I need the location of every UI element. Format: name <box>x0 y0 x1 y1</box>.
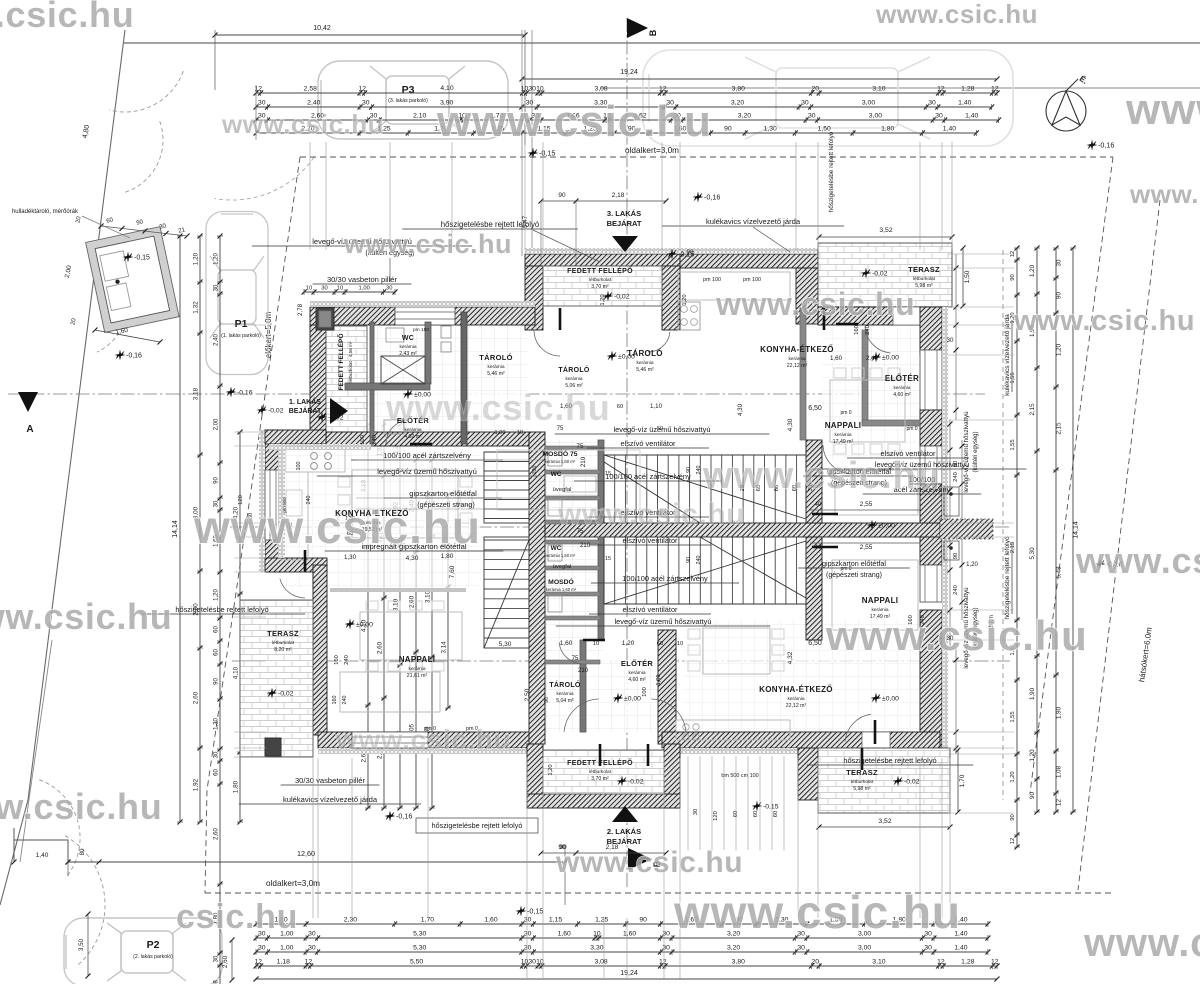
svg-text:levegő-víz üzemű hőszivattyú: levegő-víz üzemű hőszivattyú <box>377 467 477 476</box>
svg-text:12: 12 <box>659 959 667 966</box>
svg-text:30: 30 <box>258 100 266 107</box>
nappali3 sofa right <box>835 470 918 515</box>
svg-text:üvegfal: üvegfal <box>553 487 572 493</box>
kitchen1 upper table <box>352 470 458 538</box>
svg-text:kerámia: kerámia <box>787 696 804 702</box>
svg-text:30: 30 <box>214 955 220 962</box>
svg-text:90: 90 <box>1010 274 1016 280</box>
svg-text:30: 30 <box>524 945 532 952</box>
svg-text:(2. lakás parkoló): (2. lakás parkoló) <box>133 954 173 960</box>
svg-text:30: 30 <box>928 100 936 107</box>
svg-text:240: 240 <box>953 585 959 595</box>
covered entry FEDETT FELLEPO bottom brick <box>543 750 664 794</box>
pillar box bottom <box>265 738 281 756</box>
svg-text:levegő-víz üzemű hőszivattyú: levegő-víz üzemű hőszivattyú <box>963 411 970 493</box>
svg-text:FEDETT FELLÉPŐ: FEDETT FELLÉPŐ <box>567 758 633 767</box>
car P2 parking bottom <box>64 918 222 984</box>
kitchen1 stove <box>311 453 318 460</box>
svg-text:kerámia 1,60 m²: kerámia 1,60 m² <box>546 587 577 592</box>
svg-text:30: 30 <box>935 113 943 120</box>
wall central W spine <box>529 432 545 744</box>
svg-text:www.csic.hu: www.csic.hu <box>0 596 172 637</box>
svg-text:10: 10 <box>306 286 312 292</box>
svg-text:1,30: 1,30 <box>214 718 220 730</box>
wall top porch N <box>525 254 680 266</box>
svg-text:1,40: 1,40 <box>958 100 971 107</box>
svg-text:30: 30 <box>321 286 327 292</box>
svg-text:30: 30 <box>308 931 316 938</box>
dimension 10,42 top <box>215 34 525 36</box>
svg-text:3,00: 3,00 <box>869 113 882 120</box>
tile floor tarolo2 eloter2 <box>545 660 676 732</box>
svg-text:210: 210 <box>580 542 591 549</box>
site boundary bottom-left street line <box>20 640 52 862</box>
svg-text:3,10: 3,10 <box>393 598 400 611</box>
interior wall kitchen1 divider <box>330 588 466 592</box>
svg-text:12: 12 <box>1010 838 1016 844</box>
svg-text:P2: P2 <box>147 939 160 951</box>
svg-text:1,00: 1,00 <box>280 945 293 952</box>
svg-text:4,10: 4,10 <box>440 85 453 92</box>
svg-text:1,00: 1,00 <box>495 430 506 436</box>
svg-text:90: 90 <box>214 678 220 685</box>
svg-text:22,12 m²: 22,12 m² <box>787 363 808 369</box>
car P2 side dims <box>87 914 89 976</box>
svg-text:www.csic.hu: www.csic.hu <box>343 229 512 259</box>
svg-text:kerámia: kerámia <box>788 356 805 362</box>
svg-text:www.csic.hu: www.csic.hu <box>0 786 162 827</box>
svg-text:12: 12 <box>1056 799 1063 806</box>
interior thin wall eloter3 <box>862 330 868 424</box>
svg-text:hőszigetelésbe rejtett lefolyó: hőszigetelésbe rejtett lefolyó <box>843 756 936 765</box>
wall W of left block <box>310 325 326 444</box>
kitchen3 stove <box>678 302 700 330</box>
svg-text:1,20: 1,20 <box>1029 264 1036 277</box>
dimension chain bottom total 19,24 <box>256 978 997 980</box>
section marker A triangle <box>18 392 38 412</box>
wall N kitchen1 connect <box>265 430 326 444</box>
kitchen2 stove <box>683 724 689 730</box>
svg-text:90: 90 <box>214 477 220 484</box>
svg-text:5,30: 5,30 <box>413 931 426 938</box>
dimension chain bottom row1 <box>256 923 988 925</box>
svg-text:www.csic.hu: www.csic.hu <box>385 387 610 428</box>
covered entry FEDETT FELLEPO top brick <box>543 266 662 306</box>
svg-text:3,50: 3,50 <box>78 938 85 951</box>
svg-text:10: 10 <box>337 286 343 292</box>
level -0,16 right top <box>1087 140 1098 151</box>
svg-text:±0,00: ±0,00 <box>624 696 641 703</box>
svg-text:1,80: 1,80 <box>881 126 894 133</box>
setback dashed envelope outer right hatsokert <box>1078 200 1160 890</box>
dimension chain right total 14,14 <box>1072 248 1074 812</box>
svg-text:ELŐTÉR: ELŐTÉR <box>885 374 919 383</box>
svg-text:2,30: 2,30 <box>344 917 357 924</box>
svg-text:www.csic.hu: www.csic.hu <box>825 612 1088 659</box>
svg-text:240: 240 <box>953 472 959 482</box>
insulation E wall <box>942 307 948 748</box>
svg-text:www.csic.hu: www.csic.hu <box>555 846 743 879</box>
stair upper central treads <box>603 455 605 523</box>
tile floor kitchen1 <box>281 446 480 588</box>
level -0,15 bottom <box>752 801 763 812</box>
dimension chain left total 14,14 <box>179 236 181 822</box>
setback dashed envelope left <box>205 157 300 893</box>
svg-text:levegő-víz üzemű hőszivattyú: levegő-víz üzemű hőszivattyú <box>615 617 712 626</box>
svg-text:2,55: 2,55 <box>860 501 873 508</box>
svg-text:pm 180: pm 180 <box>413 327 429 333</box>
svg-text:1,20: 1,20 <box>1029 749 1036 762</box>
svg-text:NAPPALI: NAPPALI <box>825 421 862 430</box>
svg-text:240: 240 <box>344 655 350 665</box>
svg-text:WC: WC <box>551 545 562 552</box>
svg-text:1,40: 1,40 <box>965 113 978 120</box>
wall W kitchen1 <box>265 430 281 572</box>
svg-text:60: 60 <box>214 626 220 633</box>
svg-text:30: 30 <box>524 917 532 924</box>
svg-text:hőszigetelésbe rejtett lefolyó: hőszigetelésbe rejtett lefolyó <box>432 821 523 830</box>
svg-text:hőszigetelésbe rejtett lefolyó: hőszigetelésbe rejtett lefolyó <box>1004 536 1011 620</box>
svg-text:hőszigetelésbe rejtett lefolyó: hőszigetelésbe rejtett lefolyó <box>828 131 835 212</box>
svg-text:2,78: 2,78 <box>297 303 304 316</box>
svg-text:20: 20 <box>812 86 820 93</box>
car P3 parking top <box>318 61 508 139</box>
svg-text:12: 12 <box>255 959 263 966</box>
svg-text:12: 12 <box>991 86 999 93</box>
svg-text:TERASZ: TERASZ <box>267 629 299 638</box>
svg-text:100/100 acél zártszelvény: 100/100 acél zártszelvény <box>383 451 471 460</box>
svg-text:30: 30 <box>386 286 392 292</box>
dimension chain top total 19,24 <box>522 78 997 80</box>
extension lines right <box>948 253 1014 255</box>
wall E lower <box>920 610 942 748</box>
wc fixtures small <box>441 326 451 338</box>
svg-text:160: 160 <box>854 325 860 335</box>
svg-text:MOSDÓ: MOSDÓ <box>548 577 574 586</box>
svg-text:5,98 m²: 5,98 m² <box>915 283 933 289</box>
svg-text:30: 30 <box>662 945 670 952</box>
svg-text:12: 12 <box>359 86 367 93</box>
svg-text:1,70: 1,70 <box>959 774 966 787</box>
level mid right <box>867 520 878 531</box>
svg-text:B: B <box>648 29 658 36</box>
svg-text:100/100 acél zártszelvény: 100/100 acél zártszelvény <box>605 472 691 481</box>
svg-text:létburkolat: létburkolat <box>272 640 295 646</box>
svg-text:csic.hu: csic.hu <box>176 898 298 936</box>
svg-text:90: 90 <box>953 461 959 467</box>
svg-text:3,00: 3,00 <box>858 945 871 952</box>
wall corner col bottom terrace W <box>798 748 818 800</box>
svg-text:kulékavics vízelvezető járda: kulékavics vízelvezető járda <box>283 795 378 804</box>
tile floor kitchen3 <box>822 268 920 460</box>
door leaf bars <box>559 308 562 330</box>
terrace top dim 3,52 <box>819 236 952 238</box>
site boundary second top line right <box>600 87 1200 89</box>
svg-text:12,60: 12,60 <box>297 849 315 858</box>
svg-text:1,20: 1,20 <box>1010 771 1016 782</box>
svg-text:60: 60 <box>773 811 779 817</box>
site boundary slanted property line left <box>0 30 125 905</box>
svg-text:90: 90 <box>686 557 692 563</box>
svg-text:TÁROLÓ: TÁROLÓ <box>549 680 581 689</box>
wall corner col terrace top W <box>796 268 818 324</box>
svg-text:±0,00: ±0,00 <box>356 622 373 629</box>
svg-text:-0,15: -0,15 <box>527 907 543 916</box>
svg-text:100: 100 <box>296 462 302 471</box>
svg-text:-0,02: -0,02 <box>904 779 920 786</box>
svg-text:10: 10 <box>521 959 529 966</box>
svg-text:2,40: 2,40 <box>307 100 320 107</box>
svg-text:19,24: 19,24 <box>620 69 638 76</box>
svg-text:létburkolat: létburkolat <box>851 779 874 785</box>
svg-text:3,70 m²: 3,70 m² <box>591 776 609 782</box>
svg-text:3,30: 3,30 <box>590 945 603 952</box>
svg-text:1,92: 1,92 <box>193 778 200 791</box>
svg-text:6,50: 6,50 <box>808 640 822 647</box>
svg-text:3,10: 3,10 <box>872 86 885 93</box>
dimension chain top row3 <box>256 119 999 121</box>
svg-text:2,60: 2,60 <box>409 595 416 608</box>
svg-text:30: 30 <box>801 100 809 107</box>
wall W nappali terrace edge <box>313 565 327 735</box>
svg-text:5,30: 5,30 <box>499 641 512 648</box>
svg-text:4,02 m²: 4,02 m² <box>404 434 422 440</box>
svg-text:kerámia: kerámia <box>636 360 653 366</box>
svg-text:-0,16: -0,16 <box>237 390 253 397</box>
svg-text:P1: P1 <box>235 318 248 330</box>
svg-text:30: 30 <box>797 945 805 952</box>
svg-text:3,20: 3,20 <box>731 100 744 107</box>
svg-text:4,10: 4,10 <box>233 666 240 679</box>
svg-text:-0,02: -0,02 <box>268 408 284 415</box>
axis A dash-dot line <box>8 393 985 395</box>
svg-text:12: 12 <box>659 86 667 93</box>
extension lines left <box>234 324 266 326</box>
svg-text:90: 90 <box>1010 814 1016 820</box>
kitchen3 island table <box>830 380 905 442</box>
svg-text:pm 100: pm 100 <box>703 277 721 283</box>
insulation N left block <box>310 301 535 307</box>
svg-text:12: 12 <box>305 959 313 966</box>
svg-text:3,80: 3,80 <box>732 959 745 966</box>
svg-text:100: 100 <box>532 466 538 475</box>
svg-text:-0,15: -0,15 <box>134 255 150 262</box>
svg-text:±0,00: ±0,00 <box>882 355 899 362</box>
wall N of left block <box>310 307 535 325</box>
svg-text:www.cs: www.cs <box>1083 921 1200 965</box>
svg-text:FEDETT FELLÉPŐ: FEDETT FELLÉPŐ <box>567 266 633 275</box>
car P1 parking left <box>206 212 268 375</box>
svg-text:3,52: 3,52 <box>879 227 892 234</box>
svg-text:10: 10 <box>517 430 523 436</box>
svg-text:2,18: 2,18 <box>612 192 625 199</box>
svg-text:19,24: 19,24 <box>620 970 638 977</box>
svg-text:15: 15 <box>605 556 611 562</box>
svg-text:90: 90 <box>544 697 550 703</box>
svg-text:1,00: 1,00 <box>656 674 662 685</box>
svg-text:-0,16: -0,16 <box>126 353 142 360</box>
svg-text:100/100 acél zártszelvény: 100/100 acél zártszelvény <box>622 574 708 583</box>
level -0,02 left terrace <box>267 688 278 699</box>
svg-text:60: 60 <box>753 811 759 817</box>
svg-text:10: 10 <box>593 641 599 647</box>
dimension chain bottom row2 <box>256 937 988 939</box>
axis mid dash-dot line <box>230 526 1010 528</box>
dim 90 2,18 top <box>541 200 666 202</box>
svg-text:210: 210 <box>578 668 589 674</box>
level -0,02 bottom porch <box>617 776 628 787</box>
svg-text:3,18: 3,18 <box>193 387 200 400</box>
tile floor eloter3 <box>868 330 920 420</box>
svg-text:4,30: 4,30 <box>787 418 794 431</box>
level -0,16 top right <box>693 192 704 203</box>
svg-text:-0,15: -0,15 <box>539 149 555 158</box>
svg-text:4,60 m²: 4,60 m² <box>628 677 646 683</box>
svg-text:1,60: 1,60 <box>623 931 636 938</box>
svg-text:1,60: 1,60 <box>830 355 843 362</box>
svg-text:www.csic.hu: www.csic.hu <box>702 455 941 497</box>
svg-text:2,60: 2,60 <box>214 828 220 840</box>
svg-text:TÁROLÓ: TÁROLÓ <box>479 353 512 362</box>
svg-text:1,20: 1,20 <box>193 252 200 265</box>
svg-text:kerámia: kerámia <box>556 691 573 697</box>
extension lines porch bottom cluster <box>687 756 689 850</box>
svg-text:60: 60 <box>214 769 220 776</box>
svg-text:TERASZ: TERASZ <box>846 768 878 777</box>
interior thin wall right kitchen W <box>800 308 806 440</box>
window N left block <box>395 307 455 325</box>
wall E upper <box>920 307 942 355</box>
svg-text:www.csic.hu: www.csic.hu <box>557 498 745 531</box>
axis lower dash-dot line <box>232 660 1010 662</box>
svg-text:www.csic.hu: www.csic.hu <box>715 286 915 322</box>
svg-text:1,60: 1,60 <box>558 931 571 938</box>
kitchen1 inner insulation lining <box>269 444 371 450</box>
wc fixtures top-left block <box>386 328 404 342</box>
svg-text:elszívó ventilátor: elszívó ventilátor <box>622 536 678 545</box>
svg-text:1,50: 1,50 <box>818 126 831 133</box>
extension lines bottom <box>312 758 314 918</box>
svg-text:pm 0: pm 0 <box>840 410 851 416</box>
utility shed level -0,15 <box>123 252 134 263</box>
svg-text:240: 240 <box>696 466 702 475</box>
dimension chain top row2 <box>256 106 992 108</box>
level -0,16 left of plan <box>226 387 237 398</box>
dimension chain left row3 <box>219 236 221 984</box>
kitchen1 table <box>360 612 462 660</box>
svg-text:30/30 vasbeton pillér: 30/30 vasbeton pillér <box>327 275 398 284</box>
gate swing arcs top-left <box>109 71 183 112</box>
svg-text:30: 30 <box>528 959 536 966</box>
svg-text:kerámia 1,60 m²: kerámia 1,60 m² <box>545 459 576 464</box>
dimension chain top row1 <box>256 92 997 94</box>
svg-text:levegő-víz üzemű hőszivattyú: levegő-víz üzemű hőszivattyú <box>614 425 711 434</box>
wet core fixtures <box>548 450 562 466</box>
interior wall left block v2 <box>425 322 431 384</box>
svg-text:A: A <box>26 424 33 435</box>
dimension chain bottom row4 <box>256 965 997 967</box>
svg-text:12: 12 <box>937 959 945 966</box>
section marker B bottom triangle <box>628 848 652 870</box>
svg-text:5,30: 5,30 <box>1029 547 1036 560</box>
svg-text:±0,00: ±0,00 <box>882 696 899 703</box>
dimension chain right row3 <box>1036 248 1038 812</box>
svg-text:17,49 m²: 17,49 m² <box>833 439 854 445</box>
svg-text:30: 30 <box>308 945 316 952</box>
svg-text:5,04 m²: 5,04 m² <box>556 698 574 704</box>
svg-text:www.csic.hu: www.csic.hu <box>335 724 511 755</box>
interior wall left block h <box>345 383 430 390</box>
svg-text:hulladéktároló, mérőórák: hulladéktároló, mérőórák <box>12 209 79 215</box>
svg-text:10: 10 <box>677 641 683 647</box>
svg-text:gipszkarton előtétfal: gipszkarton előtétfal <box>409 489 477 498</box>
svg-text:3,70 m²: 3,70 m² <box>591 284 609 290</box>
svg-text:3,08: 3,08 <box>594 86 607 93</box>
svg-text:40: 40 <box>815 502 822 508</box>
svg-text:21,61 m²: 21,61 m² <box>407 673 428 679</box>
walkway dashed line right <box>1002 250 1004 800</box>
dimension chain left row4 partial <box>239 432 241 822</box>
svg-text:1,15: 1,15 <box>549 917 562 924</box>
setback dashed envelope bottom <box>205 892 1113 894</box>
utility shed level -0,16 <box>115 350 126 361</box>
vertical mini chains right of east wall <box>949 420 951 519</box>
svg-text:1,30: 1,30 <box>344 554 357 561</box>
svg-text:1,20: 1,20 <box>214 253 220 265</box>
svg-text:-0,16: -0,16 <box>704 193 720 202</box>
svg-text:240: 240 <box>342 696 348 705</box>
svg-text:-0,02: -0,02 <box>328 415 344 422</box>
svg-text:30: 30 <box>808 113 816 120</box>
svg-text:elszívó ventilátor: elszívó ventilátor <box>620 439 676 448</box>
stair void upper-left with X <box>381 356 425 384</box>
svg-text:www.csic.hu: www.csic.hu <box>673 886 961 938</box>
svg-text:(3. lakás parkoló): (3. lakás parkoló) <box>388 98 428 104</box>
kitchen1 counter left <box>281 472 308 560</box>
setback dashed envelope top <box>300 156 1113 158</box>
svg-text:NAPPALI: NAPPALI <box>399 655 436 664</box>
svg-text:TÁROLÓ: TÁROLÓ <box>558 365 590 374</box>
wall top N over kitchen3 <box>680 254 820 268</box>
interior wall tarolo bottom E thin <box>580 640 586 732</box>
svg-text:3. LAKÁS: 3. LAKÁS <box>607 209 641 218</box>
level pm00 bottom entries <box>613 693 624 704</box>
svg-text:-0,15: -0,15 <box>763 804 779 811</box>
svg-text:www.csic.hu: www.csic.hu <box>1013 305 1195 337</box>
svg-text:1,20: 1,20 <box>1056 343 1063 356</box>
svg-text:1,10: 1,10 <box>650 403 663 410</box>
svg-text:240: 240 <box>696 556 702 565</box>
svg-text:±0,00: ±0,00 <box>878 523 895 530</box>
svg-text:240: 240 <box>865 325 871 335</box>
terrace bottom dim 1,70 rotated <box>957 750 959 812</box>
svg-text:1,20: 1,20 <box>600 294 606 305</box>
dining table mid right <box>497 450 640 510</box>
svg-text:60: 60 <box>617 404 623 410</box>
window S left unit <box>352 732 428 748</box>
level -0,02 top porch <box>603 291 614 302</box>
svg-text:-0,02: -0,02 <box>872 271 888 278</box>
svg-text:2,15: 2,15 <box>1056 422 1063 435</box>
svg-text:3,14: 3,14 <box>441 641 448 654</box>
svg-text:kerámia: kerámia <box>834 432 851 438</box>
wall S left unit <box>318 732 530 748</box>
window W kitchen1 <box>265 470 281 540</box>
svg-text:P3: P3 <box>402 84 415 96</box>
svg-text:kerámia: kerámia <box>565 376 582 382</box>
chain small top left <box>304 291 395 293</box>
svg-text:3,20: 3,20 <box>727 945 740 952</box>
